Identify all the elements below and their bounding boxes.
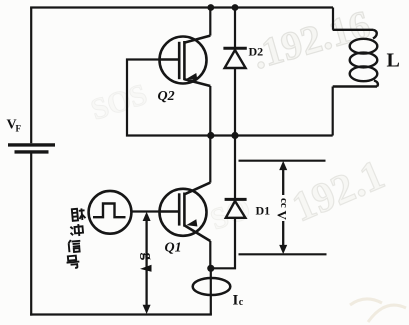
wire Q2 emitter down <box>209 86 211 136</box>
svg-text:F: F <box>16 124 22 134</box>
svg-text:c: c <box>239 297 244 308</box>
wire left rail lower <box>30 154 32 316</box>
wire Q2 collector up <box>209 8 211 36</box>
measurement line lower Vcc <box>239 253 327 255</box>
wire gate Q1 <box>131 210 159 212</box>
node junction top rail Q2 <box>207 4 214 11</box>
wire right side down <box>332 87 334 136</box>
wire mid rail <box>211 134 333 136</box>
wire Q2 gate loop <box>127 60 211 136</box>
wire top right corner <box>332 8 334 30</box>
wire Q1 emitter down <box>209 241 211 269</box>
svg-text:cc: cc <box>278 198 290 208</box>
diode D1 <box>225 199 247 217</box>
diode D2 <box>223 48 246 68</box>
transistor Q2 <box>160 36 211 86</box>
node junction mid D-line <box>231 132 238 139</box>
node junction at emitter/D1 <box>207 265 214 272</box>
wire left rail upper <box>30 8 32 144</box>
node junction top D-line <box>232 4 239 11</box>
wire diode branch vertical <box>211 8 235 269</box>
svg-text:g: g <box>139 253 155 261</box>
pulse source G1 <box>89 191 132 234</box>
label Vcc <box>275 195 291 221</box>
inductor L <box>333 30 378 87</box>
svg-text:Q2: Q2 <box>158 89 175 104</box>
wire Q1 collector up <box>209 136 211 183</box>
svg-text:V: V <box>275 211 290 221</box>
battery VF <box>8 145 55 152</box>
svg-text:L: L <box>387 50 400 72</box>
label IC <box>233 293 244 309</box>
measurement line upper Vcc <box>239 160 326 162</box>
svg-text:I: I <box>233 293 239 309</box>
node junction mid Q2 <box>207 132 214 139</box>
current sensor IC <box>210 268 212 314</box>
label pulse-signal (Chinese 脉冲信号) <box>66 208 86 268</box>
arrow ug <box>143 212 151 314</box>
arrow Vcc <box>279 161 287 254</box>
svg-text:Q1: Q1 <box>165 241 182 256</box>
svg-text:D1: D1 <box>256 204 271 218</box>
label VF <box>7 118 22 134</box>
wire top rail <box>30 6 333 8</box>
wire bottom rail <box>30 313 212 315</box>
transistor Q1 <box>160 183 211 241</box>
label ug <box>139 253 155 272</box>
svg-text:D2: D2 <box>249 45 264 59</box>
